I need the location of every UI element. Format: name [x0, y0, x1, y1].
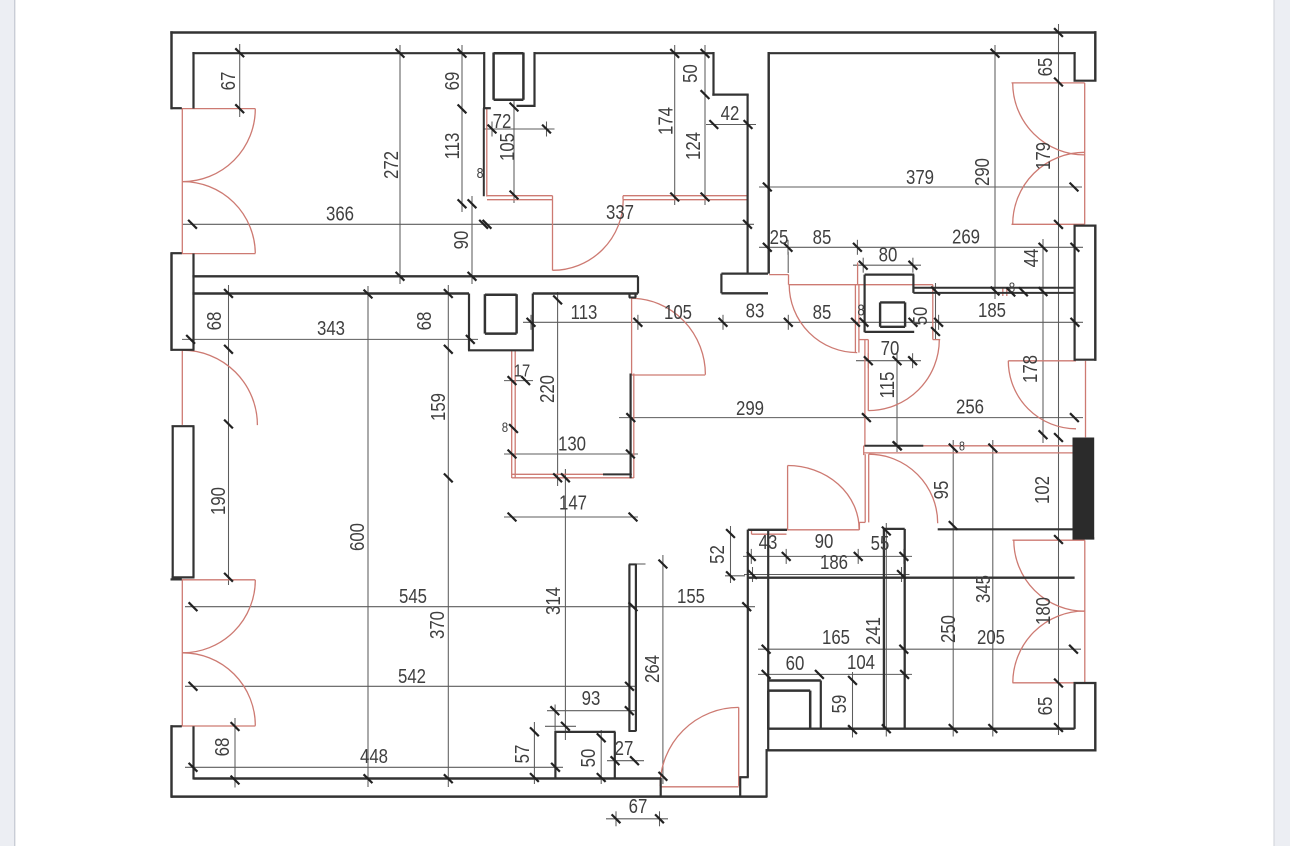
svg-text:69: 69 — [441, 72, 464, 91]
svg-text:68: 68 — [203, 312, 226, 331]
svg-text:85: 85 — [813, 301, 832, 324]
svg-text:102: 102 — [1031, 476, 1054, 504]
svg-text:155: 155 — [677, 585, 705, 608]
svg-text:314: 314 — [542, 587, 565, 615]
svg-text:104: 104 — [847, 651, 875, 674]
svg-text:50: 50 — [577, 749, 600, 768]
svg-text:345: 345 — [972, 575, 995, 603]
svg-text:17: 17 — [514, 361, 530, 381]
svg-text:105: 105 — [496, 133, 519, 161]
svg-text:178: 178 — [1019, 355, 1042, 383]
svg-text:8: 8 — [502, 419, 508, 435]
svg-text:65: 65 — [1034, 697, 1057, 716]
svg-text:42: 42 — [721, 102, 740, 125]
svg-text:105: 105 — [664, 301, 692, 324]
svg-text:115: 115 — [876, 372, 899, 399]
svg-text:264: 264 — [641, 655, 664, 683]
svg-text:43: 43 — [759, 531, 778, 554]
svg-text:93: 93 — [582, 687, 601, 710]
svg-text:68: 68 — [413, 312, 436, 331]
svg-text:90: 90 — [450, 231, 473, 250]
svg-text:83: 83 — [746, 299, 765, 322]
svg-text:337: 337 — [606, 201, 634, 224]
svg-text:67: 67 — [217, 72, 240, 91]
svg-text:44: 44 — [1020, 249, 1043, 268]
svg-text:50: 50 — [909, 307, 932, 326]
svg-text:290: 290 — [971, 158, 994, 186]
svg-text:190: 190 — [207, 487, 230, 515]
svg-text:113: 113 — [441, 133, 464, 160]
svg-text:370: 370 — [426, 611, 449, 639]
svg-text:124: 124 — [682, 132, 705, 160]
svg-text:60: 60 — [786, 652, 805, 675]
svg-text:343: 343 — [317, 317, 345, 340]
svg-text:269: 269 — [952, 225, 980, 248]
svg-text:379: 379 — [906, 166, 934, 189]
svg-text:50: 50 — [679, 64, 702, 83]
svg-text:95: 95 — [930, 481, 953, 500]
svg-text:185: 185 — [978, 299, 1006, 322]
svg-text:113: 113 — [571, 301, 598, 324]
svg-text:545: 545 — [399, 585, 427, 608]
svg-text:179: 179 — [1032, 142, 1055, 170]
svg-text:90: 90 — [815, 530, 834, 553]
svg-text:52: 52 — [706, 545, 729, 564]
svg-text:65: 65 — [1034, 58, 1057, 77]
svg-text:72: 72 — [493, 110, 512, 133]
svg-text:165: 165 — [822, 626, 850, 649]
svg-text:542: 542 — [398, 665, 426, 688]
svg-text:68: 68 — [211, 738, 234, 757]
svg-text:27: 27 — [615, 737, 634, 760]
svg-text:55: 55 — [871, 532, 890, 555]
svg-text:85: 85 — [813, 226, 832, 249]
svg-text:8: 8 — [857, 302, 864, 319]
svg-text:174: 174 — [654, 107, 677, 135]
svg-text:25: 25 — [770, 226, 789, 249]
svg-text:70: 70 — [881, 337, 900, 360]
svg-text:256: 256 — [956, 395, 984, 418]
svg-text:147: 147 — [559, 491, 587, 514]
svg-text:57: 57 — [511, 745, 534, 764]
svg-text:272: 272 — [380, 151, 403, 179]
svg-text:80: 80 — [879, 243, 898, 266]
svg-text:241: 241 — [862, 617, 885, 645]
svg-text:250: 250 — [937, 615, 960, 643]
svg-text:448: 448 — [360, 745, 388, 768]
svg-text:59: 59 — [828, 695, 851, 714]
svg-text:8: 8 — [1009, 279, 1015, 295]
svg-text:205: 205 — [977, 626, 1005, 649]
svg-text:600: 600 — [346, 523, 369, 551]
svg-text:8: 8 — [959, 438, 965, 453]
svg-text:8: 8 — [477, 165, 484, 181]
svg-text:180: 180 — [1032, 597, 1055, 625]
svg-text:366: 366 — [326, 202, 354, 225]
svg-text:130: 130 — [558, 432, 586, 455]
svg-text:220: 220 — [536, 375, 559, 403]
svg-text:299: 299 — [736, 397, 764, 420]
svg-text:159: 159 — [427, 393, 450, 421]
svg-text:186: 186 — [820, 551, 848, 574]
svg-text:67: 67 — [629, 795, 648, 818]
